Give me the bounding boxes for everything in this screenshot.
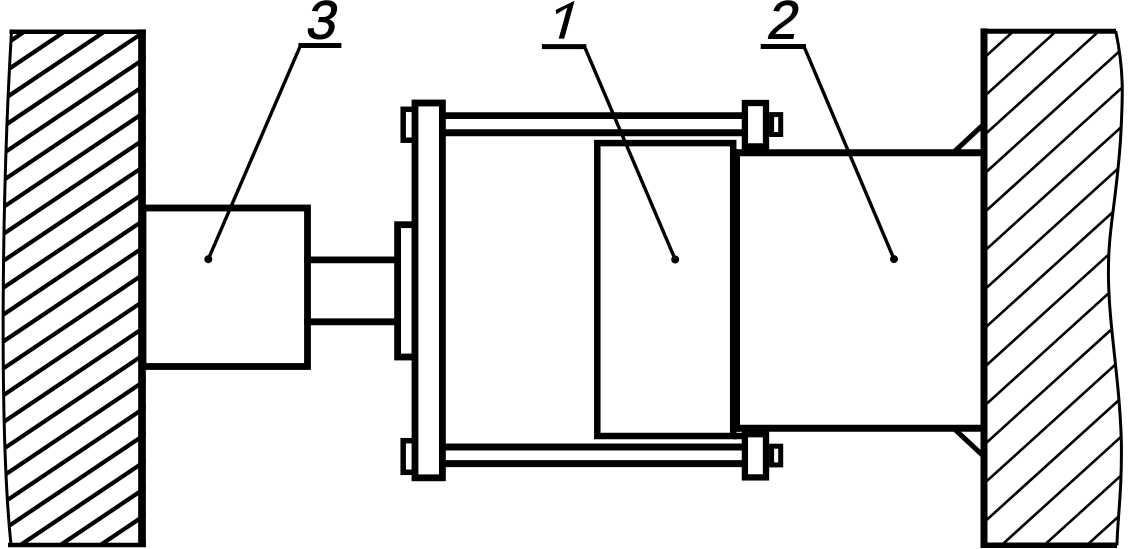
- label 1 digit: [556, 1, 575, 39]
- bottom bolt tab: [772, 446, 781, 465]
- rod between block 3 and plate, bottom line: [304, 318, 398, 325]
- small plate on flange left: [398, 225, 415, 357]
- rod between block 3 and plate, top line: [304, 256, 398, 263]
- bottom small bracket: [403, 441, 415, 473]
- top tie rod upper line: [442, 112, 745, 119]
- label 3 dot: [204, 255, 212, 263]
- label 2 dot: [890, 255, 898, 263]
- block 2 (right rod to wall) top edge: [733, 149, 984, 156]
- top small bracket: [403, 109, 415, 140]
- right wall right broken edge: [1108, 31, 1122, 545]
- bottom tie rod upper line: [442, 444, 745, 451]
- svg-text:2: 2: [763, 0, 805, 50]
- right wall left edge: [981, 28, 988, 548]
- svg-text:3: 3: [302, 0, 344, 50]
- block 2 left edge: [733, 149, 740, 432]
- label 1 leader line: [585, 47, 676, 260]
- right wall bottom edge: [981, 543, 1117, 549]
- bottom bolt head: [745, 434, 766, 477]
- left wall left broken edge: [3, 32, 11, 545]
- bottom tie rod lower line: [442, 460, 745, 467]
- piston (part 1): [597, 143, 733, 436]
- label 3 underline: [298, 43, 341, 48]
- label 2 leader line: [804, 47, 894, 260]
- right wall top edge: [981, 29, 1116, 34]
- left wall bottom edge: [8, 543, 146, 548]
- left wall right edge: [138, 29, 146, 547]
- right wall hatching: [954, 0, 1131, 549]
- block 2 bottom edge: [733, 425, 984, 432]
- top tie rod lower line: [442, 129, 745, 136]
- flange (vertical plate): [415, 103, 442, 478]
- top bolt tab: [772, 115, 781, 135]
- label 3 digit: [302, 0, 344, 50]
- block 2 top weld chamfer: [955, 123, 986, 152]
- block 2 bottom weld chamfer: [955, 430, 985, 458]
- top bolt head: [745, 103, 766, 146]
- piston bottom edge extension to bolt: [733, 433, 745, 440]
- block 3 (left mount block): [143, 208, 308, 367]
- label 1 underline: [542, 44, 586, 49]
- label 2 underline: [761, 44, 806, 49]
- label 3 leader line: [208, 46, 300, 260]
- left wall top edge: [10, 29, 146, 34]
- label 2 digit: [763, 0, 805, 50]
- label 1 dot: [671, 256, 679, 264]
